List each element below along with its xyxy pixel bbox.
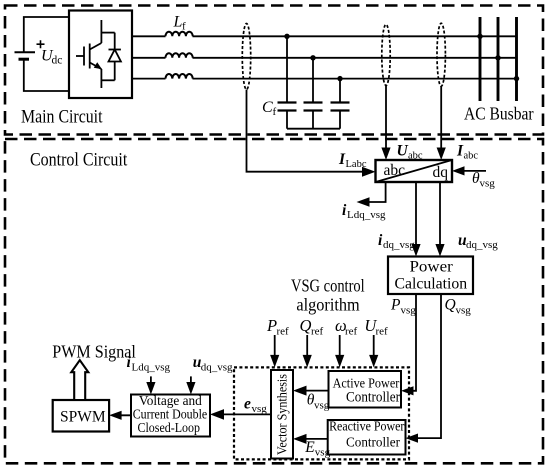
hollow arrow SPWM to PWM signal: [71, 360, 88, 400]
wire theta_vsg input with arrow: [452, 166, 486, 175]
wire probe3 to abc-dq with arrow Iabc: [437, 86, 446, 160]
svg-text:Q: Q: [445, 297, 456, 314]
capacitor Cf phase C: [331, 79, 350, 129]
svg-text:e: e: [244, 396, 251, 413]
svg-text:dq_vsg: dq_vsg: [383, 239, 415, 251]
svg-text:Reactive Power: Reactive Power: [329, 420, 405, 435]
svg-text:Ldq_vsg: Ldq_vsg: [132, 362, 171, 374]
svg-text:U: U: [397, 143, 409, 160]
wire Uref arrow: [369, 335, 378, 367]
node dot busbar A: [477, 34, 482, 39]
wire probe1 to abc-dq with arrow ILabc: [247, 90, 376, 177]
wire idq_vsg to power calculation with arrow: [411, 182, 420, 257]
svg-text:vsg: vsg: [456, 305, 472, 317]
IGBT Q1: [76, 20, 102, 88]
inverter box: [69, 11, 132, 99]
SPWM block: [53, 400, 109, 432]
svg-text:ref: ref: [376, 326, 389, 338]
svg-text:SPWM: SPWM: [60, 409, 106, 426]
node dot phase B cap tap: [310, 55, 315, 60]
label + polarity: [37, 40, 45, 48]
current probe measurement oval 1: [242, 24, 250, 90]
svg-text:Ldq_vsg: Ldq_vsg: [347, 209, 386, 221]
capacitor Cf phase A: [278, 36, 297, 128]
svg-text:dc: dc: [52, 55, 63, 67]
svg-text:Control Circuit: Control Circuit: [30, 151, 128, 171]
svg-text:P: P: [390, 297, 401, 314]
svg-text:Controller: Controller: [346, 436, 400, 451]
wire battery to inverter top: [24, 17, 69, 52]
inductor Lf phase A: [166, 32, 193, 37]
svg-text:Controller: Controller: [346, 390, 400, 406]
main circuit dashed border: [5, 6, 543, 135]
wire omega_ref arrow: [335, 335, 344, 367]
svg-text:vsg: vsg: [480, 178, 496, 190]
wire RPC to vector synthesis arrow Evsg: [293, 434, 328, 444]
svg-text:f: f: [182, 21, 186, 33]
wire capacitor common bus: [287, 128, 340, 130]
node dot busbar B: [495, 55, 500, 60]
svg-text:L: L: [173, 14, 183, 31]
VSG algorithm dotted box: [234, 367, 409, 459]
svg-text:Closed-Loop: Closed-Loop: [138, 421, 201, 436]
diode D1 antiparallel: [101, 33, 121, 81]
node dot phase C cap tap: [337, 76, 342, 81]
wire loop block to SPWM arrow: [109, 411, 131, 420]
svg-text:abc: abc: [384, 162, 406, 179]
inductor Lf phase C: [166, 74, 193, 79]
svg-text:ref: ref: [277, 326, 290, 338]
reactive power controller block: [328, 420, 406, 455]
svg-text:abc: abc: [464, 151, 479, 162]
svg-text:algorithm: algorithm: [296, 294, 359, 314]
svg-text:vsg: vsg: [252, 403, 268, 415]
inductor Lf phase B: [166, 53, 193, 58]
active power controller block: [329, 371, 402, 408]
wire Qvsg to reactive power controller with arrow: [406, 294, 442, 443]
voltage current double closed loop block: [131, 394, 210, 437]
wire APC to vector synthesis arrow theta_vsg: [293, 386, 329, 396]
wire evsg to voltage current loop arrow: [210, 409, 271, 420]
svg-text:PWM Signal: PWM Signal: [52, 342, 136, 362]
wire Pref arrow: [270, 335, 279, 367]
node dot phase A cap tap: [284, 34, 289, 39]
svg-text:Labc: Labc: [346, 159, 367, 170]
svg-text:P: P: [266, 316, 277, 335]
svg-text:vsg: vsg: [315, 447, 331, 459]
wire udq_vsg stub arrow into loop block: [186, 376, 195, 394]
vector synthesis block: [271, 370, 293, 459]
DC source battery Udc: [15, 52, 36, 59]
wire iLdq_vsg stub arrow into loop block: [146, 376, 155, 394]
svg-text:vsg: vsg: [314, 400, 330, 412]
svg-text:dq: dq: [433, 164, 449, 181]
wire iLdq_vsg output with arrow: [357, 182, 386, 207]
svg-text:ref: ref: [345, 326, 358, 338]
svg-text:ref: ref: [311, 326, 324, 338]
wire Qref arrow: [303, 335, 312, 367]
voltage probe measurement oval 2: [382, 25, 390, 86]
wire probe2 to abc-dq with arrow Uabc: [381, 86, 390, 161]
abc to dq transform block: [376, 160, 453, 182]
svg-text:C: C: [262, 99, 273, 116]
wire udq_vsg to power calculation with arrow: [435, 182, 444, 257]
svg-text:dq_vsg: dq_vsg: [466, 239, 498, 251]
svg-text:Calculation: Calculation: [395, 276, 468, 293]
control circuit dashed border: [5, 139, 543, 463]
current probe measurement oval 3: [437, 23, 445, 86]
wire battery to inverter bottom: [24, 59, 69, 91]
svg-text:Vector Synthesis: Vector Synthesis: [276, 374, 291, 455]
svg-text:Q: Q: [300, 316, 312, 335]
wire phase B: [132, 57, 166, 59]
svg-text:E: E: [304, 439, 315, 456]
wire phase C: [132, 78, 166, 80]
power calculation block: [388, 257, 473, 295]
AC busbar bars: [480, 17, 517, 101]
svg-text:VSG control: VSG control: [291, 275, 365, 295]
node dot busbar C: [514, 76, 519, 81]
svg-text:AC Busbar: AC Busbar: [464, 103, 534, 123]
svg-text:f: f: [273, 106, 277, 118]
svg-text:dq_vsg: dq_vsg: [201, 362, 233, 374]
wire Pvsg to active power controller with arrow: [401, 294, 416, 395]
capacitor Cf phase B: [304, 58, 323, 129]
svg-text:Power: Power: [410, 259, 454, 276]
svg-text:vsg: vsg: [401, 305, 417, 317]
svg-text:Main Circuit: Main Circuit: [21, 108, 103, 128]
wire phase A: [132, 35, 166, 37]
